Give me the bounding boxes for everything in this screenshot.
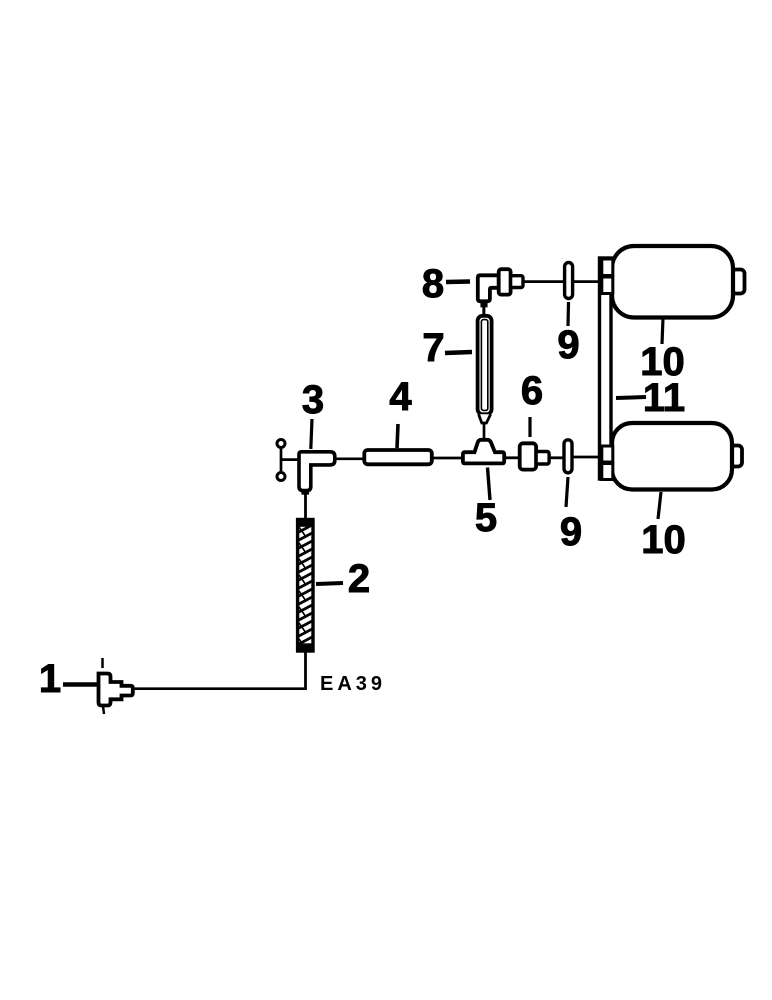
svg-text:5: 5 bbox=[475, 496, 497, 540]
svg-text:9: 9 bbox=[557, 323, 579, 367]
svg-text:11: 11 bbox=[643, 376, 685, 420]
svg-text:3: 3 bbox=[302, 378, 324, 422]
svg-text:4: 4 bbox=[389, 375, 412, 419]
svg-text:6: 6 bbox=[521, 369, 543, 413]
svg-text:8: 8 bbox=[422, 262, 444, 306]
svg-text:9: 9 bbox=[560, 510, 582, 554]
svg-text:10: 10 bbox=[641, 518, 686, 562]
svg-text:7: 7 bbox=[422, 326, 444, 370]
svg-text:2: 2 bbox=[348, 557, 370, 601]
svg-text:EA39: EA39 bbox=[320, 673, 386, 695]
svg-text:1: 1 bbox=[39, 657, 61, 701]
